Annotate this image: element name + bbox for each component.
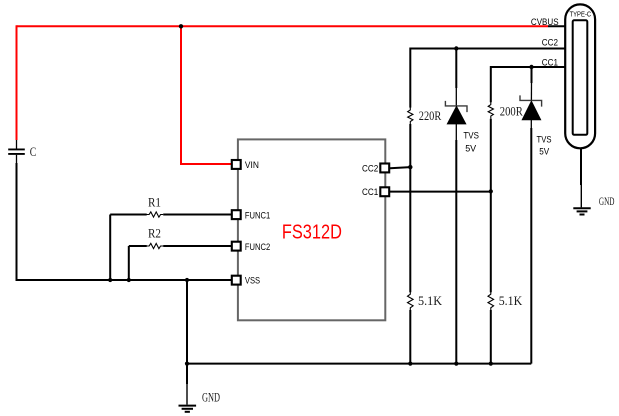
svg-text:CC2: CC2 xyxy=(362,163,378,174)
pin VSS xyxy=(232,276,241,285)
resistor 5.1K (CC1) xyxy=(488,292,494,310)
svg-text:FUNC1: FUNC1 xyxy=(245,211,270,222)
wire VBUS left drop to capacitor (red) xyxy=(16,25,18,140)
wire CC2 vertical lower segment xyxy=(409,310,411,364)
node chip CC2 connection xyxy=(408,165,412,169)
op-chip U1 FS312D body xyxy=(238,139,385,320)
svg-text:VIN: VIN xyxy=(245,160,259,171)
node rail junction 220R line xyxy=(408,362,412,366)
svg-text:C: C xyxy=(30,145,37,159)
wire CC2 vertical upper segment xyxy=(409,48,411,108)
svg-text:CC1: CC1 xyxy=(542,58,558,69)
wire GND stem left xyxy=(186,280,188,405)
node rail junction 200R line xyxy=(489,362,493,366)
svg-text:5.1K: 5.1K xyxy=(418,294,442,308)
capacitor C xyxy=(8,140,25,164)
pin FUNC1 xyxy=(232,210,241,219)
transient diode TVS2 xyxy=(520,67,542,129)
node CC1/TVS2 junction xyxy=(529,65,533,69)
wire VBUS top rail (red) xyxy=(17,25,549,27)
resistor R2 xyxy=(129,243,232,248)
wire CC1 vertical lower segment xyxy=(490,310,492,364)
transient diode TVS1 xyxy=(445,49,467,142)
resistor R1 xyxy=(110,212,232,217)
connector J1 tongue xyxy=(573,20,588,135)
node VBUS junction xyxy=(179,24,183,28)
resistor 220R xyxy=(408,107,413,124)
wire capacitor to bottom-left rail xyxy=(16,163,18,280)
svg-text:FUNC2: FUNC2 xyxy=(245,242,270,253)
ground symbol left xyxy=(179,406,197,412)
svg-text:5V: 5V xyxy=(465,143,476,153)
svg-text:TVS: TVS xyxy=(463,130,479,140)
svg-text:GND: GND xyxy=(599,196,615,208)
wire ground bottom rail xyxy=(187,363,531,365)
node chip CC1 connection xyxy=(489,189,493,193)
wire chip CC1 pin to 200R line xyxy=(390,191,491,193)
svg-text:GND: GND xyxy=(202,389,220,404)
node junction R2 branch xyxy=(127,278,131,282)
wire CC2 net horizontal xyxy=(410,48,566,50)
svg-text:5.1K: 5.1K xyxy=(499,294,523,308)
node CC2/TVS1 junction xyxy=(454,46,458,50)
svg-text:R2: R2 xyxy=(148,227,161,241)
wire chip CC2 pin to 220R line xyxy=(390,167,410,168)
node junction R1 branch xyxy=(108,278,112,282)
svg-text:200R: 200R xyxy=(500,105,524,119)
wire FUNC2 branch vertical xyxy=(128,246,130,280)
wire CC1 vertical middle segment xyxy=(490,119,492,293)
connector J1 TYPE-C outline xyxy=(565,4,595,148)
wire CVBUS stub to connector xyxy=(548,25,566,27)
resistor 5.1K (CC2) xyxy=(408,292,414,310)
wire TVS2 to ground rail xyxy=(530,128,532,364)
wire CC1 net horizontal and drop xyxy=(491,67,566,102)
resistor 200R xyxy=(488,102,493,119)
pin CC2 chip xyxy=(380,164,389,173)
wire TVS1 to ground rail xyxy=(455,140,457,364)
wire connector shell to ground xyxy=(580,148,582,207)
svg-text:CC1: CC1 xyxy=(362,187,378,198)
svg-text:R1: R1 xyxy=(148,196,161,210)
svg-text:220R: 220R xyxy=(419,109,442,123)
node junction GND stem xyxy=(185,278,189,282)
svg-text:5V: 5V xyxy=(539,147,549,157)
wire FUNC1 branch vertical xyxy=(109,215,111,281)
svg-text:FS312D: FS312D xyxy=(282,220,342,243)
node rail/stem junction xyxy=(185,362,189,366)
svg-text:CVBUS: CVBUS xyxy=(531,17,559,28)
svg-text:TVS: TVS xyxy=(537,134,552,144)
wire CC2 vertical middle segment xyxy=(409,124,411,292)
wire bottom-left horizontal to VSS xyxy=(16,279,232,281)
node rail junction TVS1 line xyxy=(454,362,458,366)
ground symbol right xyxy=(573,208,590,214)
pin CC1 chip xyxy=(380,187,389,196)
svg-text:VSS: VSS xyxy=(245,276,260,287)
pin FUNC2 xyxy=(232,242,241,251)
pin VIN xyxy=(232,160,241,169)
svg-text:CC2: CC2 xyxy=(542,37,558,48)
wire VBUS branch to VIN (red) xyxy=(181,25,232,164)
svg-text:TYPE-C: TYPE-C xyxy=(570,10,592,19)
